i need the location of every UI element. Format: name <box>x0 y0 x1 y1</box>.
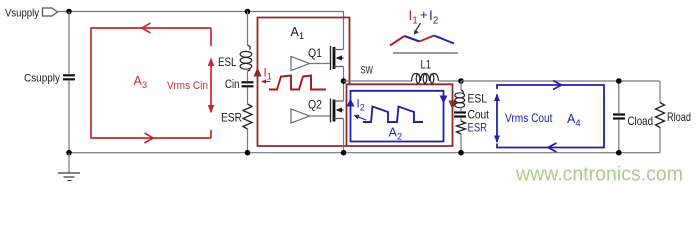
capacitor Csupply <box>63 75 75 79</box>
svg-text:ESL: ESL <box>218 57 237 69</box>
node junction bottom-left <box>66 150 72 156</box>
wire Cload branch top <box>618 81 620 113</box>
waveform I1+I2 ripple red segment 1 <box>390 36 405 46</box>
wire output branch top <box>460 81 462 91</box>
loop A3 Vrms up arrowhead <box>208 58 215 67</box>
capacitor Cin <box>242 82 254 86</box>
wire Csupply branch lower <box>68 81 70 153</box>
loop A3 top arrow (left) <box>142 23 151 33</box>
wire ESL to Cout <box>460 107 462 111</box>
node junction output bottom <box>458 150 464 156</box>
svg-text:Cout: Cout <box>468 110 490 122</box>
svg-text:Cin: Cin <box>225 79 240 91</box>
wire ESR to bottom rail <box>247 129 249 153</box>
svg-text:ESR: ESR <box>221 113 242 125</box>
wire output rail <box>461 80 660 82</box>
wire Csupply branch upper <box>68 12 70 75</box>
svg-text:ESL: ESL <box>468 94 488 106</box>
waveform I1+I2 ripple blue segment 1 <box>405 36 420 42</box>
wire Rload branch bottom <box>659 128 661 153</box>
loop A4 top arrow (right) <box>553 81 562 90</box>
svg-text:ESR: ESR <box>468 123 488 135</box>
svg-text:Q1: Q1 <box>308 46 322 60</box>
wire coil to Cin <box>247 71 249 81</box>
resistor ESR output zigzag <box>457 121 466 134</box>
svg-text:SW: SW <box>361 65 374 77</box>
wire top rail <box>58 12 344 50</box>
svg-text:www.cntronics.com: www.cntronics.com <box>515 164 683 186</box>
node junction Cload bottom <box>616 150 622 156</box>
loop A3 <box>91 28 211 138</box>
loop A2 right-edge down arrowhead <box>440 96 448 104</box>
node junction bottom Cin <box>245 150 251 156</box>
node Vsupply tag symbol <box>43 8 58 16</box>
waveform I1+I2 axis line <box>393 52 458 54</box>
waveform I2 (notch pulses) <box>363 107 423 123</box>
resistor Rload zigzag <box>656 103 665 128</box>
node junction Cload top <box>616 78 622 84</box>
node junction Q2 bottom <box>341 150 347 156</box>
transistor Q2 driver triangle <box>291 109 310 123</box>
wire Cout to ESR <box>460 118 462 121</box>
loop A1 left-edge up arrowhead (I1) <box>253 68 261 77</box>
loop A1 outline <box>258 18 350 147</box>
wire Cin to ESR <box>247 88 249 105</box>
svg-text:Vsupply: Vsupply <box>5 8 39 20</box>
wire Rload branch top <box>659 81 661 103</box>
wire Q1 source to SW <box>343 67 345 82</box>
node SW junction <box>341 78 347 84</box>
wire Q2 source to bottom rail <box>343 119 345 153</box>
loop A4 Vrms down arrowhead <box>494 136 500 144</box>
wire input cap branch top <box>247 12 249 46</box>
inductor L1 <box>412 74 439 84</box>
arrow I1 leader <box>263 81 271 83</box>
loop A1 extension around A2 <box>347 84 453 146</box>
transistor Q1 <box>331 46 344 70</box>
wire ESR to bottom rail <box>460 134 462 153</box>
wire Q2 driver to gate <box>310 115 331 117</box>
waveform I1 (trapezoid pulses) <box>269 76 326 90</box>
node output junction <box>458 78 464 84</box>
loop A2 left-edge up arrowhead <box>347 99 355 107</box>
inductor ESL input coil <box>240 45 252 71</box>
transistor Q1 driver triangle <box>291 57 310 71</box>
ground <box>58 173 80 181</box>
loop A4 bottom arrow (left) <box>548 143 557 152</box>
waveform I1+I2 ripple blue segment 2 <box>434 36 454 44</box>
svg-text:Q2: Q2 <box>308 98 322 112</box>
svg-text:Rload: Rload <box>667 110 691 124</box>
svg-text:Vrms Cout: Vrms Cout <box>505 113 553 125</box>
loop A2 <box>351 91 444 142</box>
waveform I1+I2 ripple red segment 2 <box>420 36 435 42</box>
wire Q2 drain to SW <box>343 81 345 101</box>
wire Q1 driver to gate <box>310 63 331 65</box>
inductor ESL output coil <box>455 90 465 108</box>
node junction top Cin <box>245 9 251 15</box>
node junction top-left <box>66 9 72 15</box>
svg-text:+: + <box>420 7 428 22</box>
arrow I2 leader <box>356 116 366 120</box>
loop A1 right-edge down arrowhead <box>448 101 456 110</box>
capacitor Cload <box>613 115 625 119</box>
loop A4 <box>497 85 604 148</box>
wire L1 to output node <box>439 80 462 82</box>
wire bottom rail <box>69 152 660 154</box>
svg-text:Vrms Cin: Vrms Cin <box>167 80 208 92</box>
loop A4 Vrms up arrowhead <box>494 94 500 102</box>
wire SW to L1 <box>344 80 412 82</box>
resistor ESR input zigzag <box>243 104 252 129</box>
svg-text:Csupply: Csupply <box>24 73 60 85</box>
svg-text:Cload: Cload <box>628 114 654 128</box>
loop A3 bottom arrow (right) <box>145 133 154 143</box>
loop A3 Vrms down arrowhead <box>208 105 215 114</box>
transistor Q2 <box>331 99 344 123</box>
wire ground stem <box>68 153 70 173</box>
arrow I1+I2 leader <box>415 23 421 32</box>
svg-text:L1: L1 <box>421 58 432 72</box>
wire Cload branch bottom <box>618 120 620 153</box>
capacitor Cout <box>454 113 466 117</box>
